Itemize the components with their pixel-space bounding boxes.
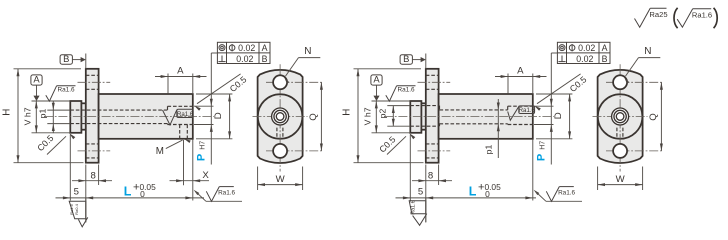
surface finish Ra1.6 in bore (boxed) [177, 109, 193, 117]
dimension 5 extension lines [69, 135, 71, 201]
hidden bore p1 [70, 109, 167, 111]
svg-text:H7: H7 [540, 141, 547, 150]
boss circle D [598, 94, 643, 139]
flag extension line [85, 198, 87, 223]
chamfer C0.5 callout (pilot) [387, 136, 406, 154]
svg-text:L: L [124, 185, 132, 199]
dimension P H7 [550, 53, 552, 165]
top hole center line / Q extension [606, 81, 664, 83]
svg-text:0.02: 0.02 [236, 54, 253, 64]
svg-text:Ra1.6: Ra1.6 [558, 189, 575, 196]
mounting hole N (top) [273, 75, 287, 89]
dimension H [17, 69, 19, 163]
dimension 5 [396, 197, 537, 199]
svg-text:A: A [602, 43, 608, 53]
bottom hole center line / Q extension [266, 150, 324, 152]
flange hole center line (bottom) [418, 150, 451, 152]
flange hole center line (top) [78, 81, 111, 83]
hidden bore p2 [410, 105, 439, 107]
svg-text:M: M [156, 146, 164, 157]
svg-text:H7: H7 [200, 141, 207, 150]
svg-text:C0.5: C0.5 [228, 74, 249, 94]
datum B label [60, 55, 72, 64]
svg-text:A: A [517, 65, 524, 76]
datum B extension line [85, 54, 87, 69]
bore end extension lines [534, 105, 554, 107]
chamfer C0.5 callout (bore) [197, 74, 241, 104]
svg-text:W: W [616, 174, 626, 185]
svg-text:N: N [304, 46, 311, 57]
svg-text:B: B [262, 54, 268, 64]
surface finish Ra1.6 on end face [534, 190, 540, 195]
svg-text:Q: Q [308, 113, 319, 120]
right part drawing: side view [342, 42, 610, 225]
dimension p1 extension lines [47, 109, 70, 111]
dimension P H7 [210, 53, 212, 165]
svg-text:Q: Q [648, 113, 659, 120]
dimension X extension line [183, 140, 185, 185]
hidden bore P H7 [508, 105, 533, 107]
dimension A right extension line [192, 74, 194, 95]
surface finish flag on datum face [69, 201, 86, 219]
datum A label [31, 75, 42, 85]
vertical center line [619, 64, 621, 171]
svg-text:X: X [202, 170, 209, 181]
bore end extension lines [194, 105, 214, 107]
svg-text:V h7: V h7 [362, 107, 372, 125]
dimension W [598, 184, 643, 186]
relief neck groove [421, 103, 425, 129]
svg-text:0.02: 0.02 [578, 43, 595, 53]
flange hole center line (bottom) [78, 150, 111, 152]
dimension A [155, 76, 207, 78]
top hole center line / Q extension [266, 81, 324, 83]
svg-text:H: H [342, 109, 353, 116]
svg-text:Ra1.6: Ra1.6 [57, 86, 74, 93]
svg-text:B: B [602, 54, 608, 64]
svg-text:C0.5: C0.5 [377, 134, 397, 154]
dimension W extension lines [597, 167, 599, 191]
svg-text:Ra1.6: Ra1.6 [410, 200, 416, 214]
dimension L with tolerance +0.05/0 [185, 196, 192, 199]
dimension L right extension line [192, 140, 194, 201]
feature control frame: concentricity 0.02 A / perpendicularity 0.02 B [217, 42, 270, 63]
hidden bore step p1-P [507, 106, 509, 110]
svg-text:A: A [33, 74, 40, 85]
dimension V h7 extension lines [372, 100, 411, 102]
svg-text:p1: p1 [38, 109, 48, 119]
dimension p1 (through bore) [497, 99, 499, 158]
dimension 8 extension line [98, 165, 100, 186]
svg-text:8: 8 [91, 170, 96, 181]
dimension H extension lines [354, 68, 422, 70]
svg-text:A: A [373, 74, 380, 85]
dimension L with tolerance +0.05/0 [525, 196, 532, 199]
dimension A extension line [167, 74, 169, 94]
hidden mounting hole N edges (bottom) [86, 143, 99, 145]
surface finish Ra1.6 on pilot [46, 86, 57, 101]
dimension D [569, 94, 571, 139]
horizontal center line [253, 116, 308, 118]
hidden set screw hole (front) [276, 128, 278, 139]
flange front view outline [598, 70, 643, 163]
dimension A right extension line [532, 74, 534, 95]
hidden mounting hole N edges (top) [86, 74, 99, 76]
svg-text:Ra0.4: Ra0.4 [74, 203, 79, 214]
flange hole center line (top) [418, 81, 451, 83]
hidden mounting hole N edges (bottom) [426, 143, 439, 145]
dimension Q [320, 82, 322, 151]
dimension W extension lines [257, 167, 259, 191]
surface finish flag on datum face [409, 201, 426, 214]
svg-text:Ra1.6: Ra1.6 [692, 11, 712, 20]
svg-text:Ra25: Ra25 [649, 10, 667, 19]
svg-text:D: D [213, 112, 224, 119]
dimension L right extension line [532, 140, 534, 201]
svg-text:A: A [177, 65, 184, 76]
chamfer C0.5 callout (bore) [537, 74, 581, 104]
svg-text:C0.5: C0.5 [35, 133, 55, 153]
right part drawing: front view [593, 46, 664, 190]
flange (side view) [426, 69, 439, 163]
hidden bore P H7 [168, 105, 193, 107]
pilot step V h7 (right part) [410, 101, 421, 133]
svg-text:p2: p2 [378, 109, 388, 119]
dimension p2 extension lines [387, 105, 410, 107]
dimension 8 [72, 180, 112, 182]
svg-text:5: 5 [74, 187, 79, 198]
svg-text:H: H [2, 109, 13, 116]
svg-text:B: B [63, 53, 69, 64]
dimension H extension lines [14, 68, 82, 70]
hidden set screw hole M [179, 125, 181, 139]
svg-text:C0.5: C0.5 [568, 74, 589, 94]
vertical center line [279, 64, 281, 171]
svg-text:0.02: 0.02 [576, 54, 593, 64]
svg-text:N: N [644, 46, 651, 57]
flag extension line [425, 198, 427, 223]
center bore circles [272, 108, 289, 125]
flange (side view) [86, 69, 99, 163]
dimension D [229, 94, 231, 139]
center line [44, 116, 214, 118]
dimension V h7 extension lines [32, 100, 71, 102]
svg-text:5: 5 [418, 187, 423, 198]
svg-text:Ra1.6: Ra1.6 [218, 189, 235, 196]
flange front view outline [258, 70, 303, 163]
dimension V h7 [375, 101, 377, 133]
datum B label [400, 55, 412, 64]
datum B extension line [425, 54, 427, 69]
surface finish Ra1.6 in bore (boxed) [519, 106, 535, 114]
dimension X [170, 180, 210, 182]
dimension 5 [56, 197, 205, 199]
dimension H [357, 69, 359, 163]
mounting hole N (top) [613, 75, 627, 89]
svg-text:W: W [276, 174, 286, 185]
hidden mounting hole N edges (top) [426, 74, 439, 76]
svg-text:0.02: 0.02 [238, 43, 255, 53]
surface finish Ra1.6 on end face [194, 190, 200, 195]
svg-text:L: L [469, 185, 477, 199]
dimension Q [660, 82, 662, 151]
hidden bore step [167, 106, 169, 110]
dimension 5 extension lines [409, 135, 411, 201]
svg-text:Ra1.6: Ra1.6 [177, 111, 194, 118]
svg-text:P: P [195, 154, 207, 161]
global surface roughness note Ra25 (Ra1.6) [635, 8, 651, 27]
datum A label [371, 75, 382, 85]
svg-text:8: 8 [428, 170, 433, 181]
svg-text:D: D [553, 112, 564, 119]
dimension p1 [52, 101, 54, 134]
dimension p2 [392, 106, 394, 127]
dimension 8 extension line [438, 165, 440, 186]
center bore circles [612, 108, 629, 125]
shaft body [99, 94, 193, 139]
svg-text:Ra1.6: Ra1.6 [519, 107, 536, 114]
svg-text:B: B [403, 53, 409, 64]
svg-text:Ra1.6: Ra1.6 [397, 86, 414, 93]
feature control frame leader [211, 52, 217, 54]
svg-text:A: A [262, 43, 268, 53]
svg-text:V h7: V h7 [22, 107, 32, 125]
left part drawing: front view [253, 46, 324, 190]
dimension 8 [412, 180, 452, 182]
dimension W [258, 184, 303, 186]
dimension D extension lines [536, 93, 572, 95]
relief neck groove [81, 103, 85, 129]
left part drawing: side view [2, 42, 270, 227]
center line [384, 116, 554, 118]
boss circle D [258, 94, 303, 139]
svg-text:P: P [535, 154, 547, 161]
svg-text:p1: p1 [483, 145, 493, 155]
dimension D extension lines [196, 93, 232, 95]
hidden bore p1 [440, 109, 508, 111]
mounting hole N (bottom) [273, 144, 287, 158]
horizontal center line [593, 116, 648, 118]
mounting hole N (bottom) [613, 144, 627, 158]
pilot step V h7 [70, 101, 81, 133]
chamfer C0.5 callout (pilot) [47, 136, 66, 154]
svg-text:0: 0 [140, 189, 145, 199]
feature control frame leader [551, 52, 557, 54]
hidden set screw hole (front) [616, 128, 618, 139]
hidden bore step p2-p1 [439, 106, 441, 110]
dimension A [495, 76, 547, 78]
dimension V h7 [35, 101, 37, 133]
bottom hole center line / Q extension [606, 150, 664, 152]
shaft body [439, 94, 533, 139]
feature control frame: concentricity 0.02 A / perpendicularity 0.02 B [557, 42, 610, 63]
surface finish Ra1.6 on pilot [386, 86, 397, 101]
svg-text:0: 0 [485, 189, 490, 199]
dimension A extension line [507, 74, 509, 94]
